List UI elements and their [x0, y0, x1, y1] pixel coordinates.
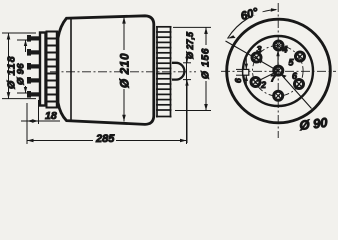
key notch and 6 dim	[243, 69, 249, 75]
60 deg radial leg to pin 3	[226, 41, 279, 71]
housing body outline	[58, 16, 154, 125]
pin 7 (center)	[274, 66, 283, 75]
svg-text:18: 18	[45, 110, 57, 122]
dimension Ø210	[122, 17, 126, 122]
pin 4 (top)	[274, 41, 283, 50]
dimension Ø27,5	[183, 55, 191, 143]
svg-text:Ø 96: Ø 96	[16, 63, 27, 85]
dimension 18	[21, 100, 60, 144]
end view: pin circle (dashed)	[252, 46, 303, 97]
centerline of side view	[50, 71, 196, 73]
svg-text:Ø 156: Ø 156	[201, 48, 212, 79]
left fin block	[46, 31, 59, 109]
dimension 285	[27, 56, 187, 144]
terminal plate	[40, 33, 46, 106]
svg-text:285: 285	[95, 133, 115, 145]
dimension Ø96	[17, 40, 31, 93]
60 deg arc with arrows	[228, 10, 277, 39]
svg-text:6: 6	[233, 78, 243, 83]
end view: vertical centerline	[277, 3, 279, 138]
60 deg radial leg to pin 4 (vertical)	[277, 46, 279, 71]
stub shaft	[172, 63, 184, 80]
dimension Ø156	[173, 27, 211, 110]
leader for Ø90	[281, 74, 312, 109]
dimension Ø118	[2, 33, 36, 99]
end view: horizontal centerline	[221, 70, 336, 72]
right fin cap	[156, 26, 172, 118]
svg-text:3: 3	[257, 45, 262, 55]
pin 6 (lower right)	[295, 80, 304, 89]
svg-text:2: 2	[260, 80, 266, 90]
terminal studs (5) on left end	[27, 35, 40, 98]
svg-text:Ø 210: Ø 210	[120, 53, 132, 88]
leader to pin 2	[257, 71, 278, 82]
svg-text:Ø 90: Ø 90	[299, 115, 330, 133]
pin 3 (upper left)	[252, 53, 261, 62]
end view: middle circle	[243, 36, 313, 106]
end view: outer circle	[227, 19, 331, 123]
pin 1 (bottom)	[274, 91, 283, 100]
pin 5 (upper right)	[296, 52, 305, 61]
pin 2 (lower left)	[251, 78, 260, 87]
svg-text:4: 4	[282, 45, 288, 55]
svg-text:5: 5	[289, 58, 295, 68]
label 60 deg	[239, 3, 264, 23]
end-shield seam	[70, 18, 72, 121]
svg-text:Ø 27,5: Ø 27,5	[185, 31, 195, 59]
